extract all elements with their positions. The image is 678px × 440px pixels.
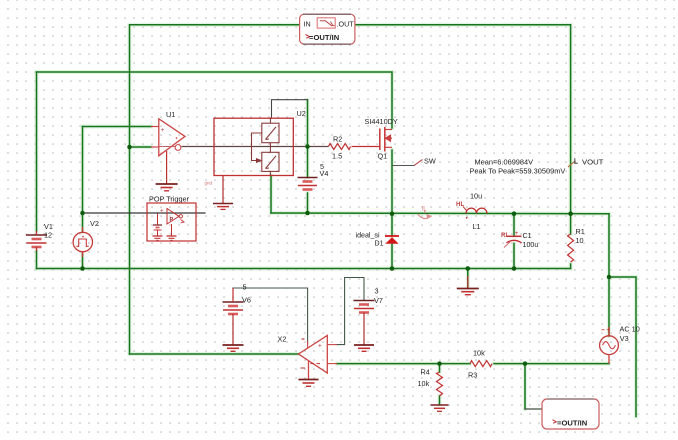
wire to bottom bode box [524, 364, 526, 409]
inductor L1 [466, 208, 487, 213]
wire feedback row R3 to V3 [494, 363, 609, 365]
svg-text:+: + [161, 127, 165, 134]
U2 inner switch bottom [262, 152, 279, 171]
svg-text:V7: V7 [374, 296, 383, 305]
junction bode box tap [523, 361, 528, 366]
wire D1 anode lead [391, 244, 393, 269]
source V3 (AC) [600, 327, 619, 364]
battery V4 [298, 178, 318, 190]
resistor R4 [437, 372, 443, 396]
svg-text:3: 3 [375, 287, 379, 296]
current probe IL [418, 214, 431, 219]
bode probe box top (IN/OUT) [300, 14, 355, 44]
wire POP trigger input row from V2 column [83, 212, 206, 214]
resistor R1 [568, 234, 574, 262]
ground on output rail [457, 276, 479, 295]
svg-text:POP Trigger: POP Trigger [149, 195, 190, 204]
wire top loop right (bode OUT to VOUT column) [355, 25, 571, 214]
svg-text:R4: R4 [421, 368, 430, 377]
resistor R3 [470, 361, 492, 367]
wire R1 top lead [570, 214, 572, 234]
svg-text:+: + [606, 327, 610, 334]
svg-text:VOUT: VOUT [582, 158, 604, 167]
battery inside POP trigger [153, 225, 162, 236]
wire Q1 source to SW node [391, 150, 393, 214]
wire ground tap below rail [467, 269, 469, 288]
wire V2 column [82, 127, 84, 233]
svg-text:IL: IL [422, 206, 428, 213]
svg-text:10u: 10u [470, 192, 482, 201]
junction V2 top at POP row [80, 211, 85, 216]
diode D1 (ideal_si) [385, 236, 399, 244]
ground below V6 [223, 345, 244, 351]
svg-text:gnd: gnd [205, 181, 213, 186]
wire X2 plus input loop to V7 [337, 278, 364, 345]
svg-text:100u: 100u [523, 241, 539, 249]
junction D1 anode rail [390, 266, 395, 271]
svg-text:AC 10: AC 10 [620, 325, 640, 334]
wire V3 top column [608, 214, 610, 336]
U2 inner drive bracket [252, 118, 271, 175]
svg-text:1.5: 1.5 [332, 152, 342, 161]
wire R4 top lead [439, 364, 441, 372]
svg-text:P: P [170, 217, 174, 223]
junction ground tap rail [466, 266, 471, 271]
svg-text:Q1: Q1 [378, 152, 388, 161]
svg-text:5: 5 [243, 283, 247, 292]
wire R1 bottom lead [570, 264, 572, 269]
junction VOUT R1 top [568, 211, 573, 216]
ground below V7 [354, 345, 374, 351]
svg-text:U2: U2 [297, 109, 306, 118]
wire stub into bottom bode box [525, 408, 542, 410]
wire top loop left (bode IN to X2 output column) [130, 25, 300, 354]
ground below R4 [431, 405, 449, 411]
svg-text:RL: RL [501, 232, 509, 239]
junction V2 bottom rail [80, 266, 85, 271]
svg-text:V3: V3 [620, 334, 629, 343]
svg-text:ideal_si: ideal_si [356, 232, 380, 240]
svg-text:V4: V4 [320, 169, 329, 178]
source V2 (pulse) [73, 227, 92, 257]
bode probe box bottom (=OUT/IN) [542, 399, 599, 429]
ground U1 [156, 151, 178, 191]
resistor R2 [329, 144, 380, 150]
wire SW probe tap [392, 165, 414, 167]
U2 gnd pin [222, 176, 224, 204]
op-amp U1 [151, 119, 185, 156]
svg-text:R3: R3 [468, 371, 477, 380]
junction V3 branch [607, 275, 612, 280]
svg-text:12: 12 [44, 231, 52, 240]
svg-text:.OUT: .OUT [337, 20, 355, 29]
svg-text:+: + [160, 209, 164, 215]
ground in POP trigger (left) [153, 236, 163, 240]
svg-text:=: = [309, 33, 314, 42]
ground below U2 [213, 204, 233, 210]
driver block U2 [214, 118, 293, 175]
svg-text:+: + [515, 230, 519, 237]
wire feedback row X2 minus to R3 [337, 363, 470, 365]
wire U1 plus input row [83, 126, 152, 128]
node SW probe [414, 160, 423, 166]
wire D1 cathode lead [391, 214, 393, 236]
junction V4 at gate row [305, 144, 310, 149]
wire X2 output row [130, 353, 299, 355]
wire right stub branch [609, 277, 636, 417]
svg-text:+: + [318, 343, 322, 350]
wire V4 top lead [307, 100, 309, 177]
svg-text:10k: 10k [473, 349, 485, 358]
battery V7 [354, 301, 375, 345]
capacitor C1 [504, 236, 522, 247]
svg-text:IN: IN [304, 20, 311, 29]
junction U1 minus tap [127, 145, 132, 150]
svg-text:V6: V6 [242, 296, 251, 305]
ground below X2 [299, 380, 319, 387]
svg-text:10: 10 [576, 236, 584, 245]
battery V6 [223, 288, 244, 345]
ground in POP trigger (right) [167, 224, 177, 240]
gate drive row: U1 output through U2 to R2 [181, 146, 328, 148]
wire V1 bottom to ground rail corner [36, 251, 38, 269]
junction R4 top [437, 361, 442, 366]
wire ground bottom rail [37, 268, 571, 270]
wire V4 bottom lead [307, 193, 309, 213]
transistor Q1 (PMOS SI4410DY) [380, 127, 385, 152]
wire U2 bottom pin [270, 176, 272, 214]
wire V2 bottom lead [82, 254, 84, 269]
node VOUT probe [568, 161, 575, 167]
svg-text:OUT/IN: OUT/IN [314, 33, 340, 42]
junction SW node [390, 211, 395, 216]
junction V4 bottom at SW rail [305, 211, 310, 216]
svg-text:R1: R1 [576, 227, 585, 236]
svg-text:Peak To Peak=559.30509mV: Peak To Peak=559.30509mV [470, 167, 566, 176]
wire C1 bottom lead [513, 244, 515, 269]
wire U1 minus input row [130, 146, 152, 148]
svg-text:SI4410DY: SI4410DY [365, 117, 398, 126]
svg-text:D1: D1 [375, 240, 384, 248]
svg-text:=: = [557, 419, 562, 428]
svg-text:V2: V2 [90, 219, 99, 228]
wire R4 bottom lead [439, 396, 441, 405]
wire +12V top rail [37, 72, 393, 128]
wire V6 supply loop to X2 top [233, 288, 308, 344]
junction C1 top [512, 211, 517, 216]
svg-text:X2: X2 [278, 335, 287, 344]
wire SW rail to inductor row [271, 212, 609, 215]
wire C1 top lead [513, 214, 515, 236]
svg-text:U1: U1 [166, 110, 175, 119]
U2 inner switch top [262, 123, 279, 143]
svg-text:SW: SW [424, 157, 436, 166]
svg-text:10k: 10k [418, 379, 430, 388]
svg-text:Mean=6.069984V: Mean=6.069984V [475, 158, 534, 167]
svg-text:R2: R2 [333, 135, 342, 144]
wire V1 column left [36, 72, 38, 231]
svg-text:L1: L1 [473, 222, 481, 231]
op-amp X2 (error amp, pointing left) [299, 336, 338, 380]
junction C1 bottom rail [512, 266, 517, 271]
battery V1 [26, 231, 47, 251]
svg-text:OUT/IN: OUT/IN [562, 419, 588, 428]
svg-text:C1: C1 [523, 232, 532, 240]
wire U2 top supply loop [272, 100, 308, 119]
